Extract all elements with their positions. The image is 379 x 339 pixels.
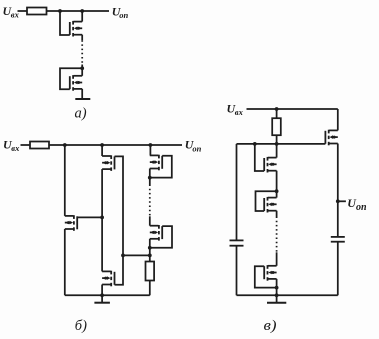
wire bottom rail (fig v) (237, 294, 338, 296)
junction drain tap (80, 9, 84, 13)
junction VT2 drain/gate (80, 66, 84, 70)
transistor VT4 (102, 145, 123, 285)
transistor VT7 (102, 271, 114, 296)
node Uvx label (fig a) (3, 4, 20, 20)
svg-text:в): в) (264, 318, 277, 334)
transistor VT1 (60, 11, 82, 40)
wire Uvx to R1 (18, 10, 28, 12)
resistor R4 (272, 109, 281, 144)
junction VT4 gate wire node (121, 254, 125, 258)
junction bottom rail ground (fig v) (275, 293, 279, 297)
node Uop label (fig b) (185, 138, 202, 154)
resistor R1 (27, 8, 47, 15)
resistor R3 (146, 262, 155, 281)
junction bottom rail ground (100, 293, 104, 297)
transistor VT11 (255, 252, 277, 295)
node Uvx label (fig b) (3, 137, 20, 153)
junction VT10 drain/gate (275, 189, 279, 193)
capacitor C1 (230, 240, 244, 295)
junction rail-VT5 (149, 143, 153, 147)
wire bottom rail (fig b) (65, 294, 150, 296)
ground (fig v) (267, 295, 286, 302)
wire VT6 source to VT4 gate line (123, 254, 150, 256)
wire gate bus (fig v) (237, 143, 326, 145)
junction Uop tap (336, 199, 340, 203)
svg-text:оп: оп (119, 10, 128, 20)
resistor R2 (30, 142, 49, 149)
caption b (75, 318, 87, 334)
transistor VT3 (65, 145, 102, 295)
junction rail-VT4 (100, 143, 104, 147)
junction VT11 gate-source (275, 286, 279, 290)
wire Uop tick (338, 200, 346, 202)
wire top rail (fig b) (49, 144, 182, 146)
junction VT3 gate to VT4 source (100, 216, 104, 220)
node Uop label (fig v) (347, 196, 367, 213)
wire R1 to Uop rail (47, 10, 110, 12)
svg-text:вх: вх (11, 143, 20, 153)
svg-text:оп: оп (192, 143, 201, 153)
wire R3 to bottom rail (149, 281, 151, 296)
capacitor C2 (331, 237, 345, 295)
wire top rail (fig v) (247, 108, 338, 110)
junction VT6 source to cross wire (148, 254, 152, 258)
wire Uvx to R2 (21, 144, 31, 146)
wire dotted chain (fig a) (81, 40, 83, 64)
wire left branch top (236, 144, 238, 241)
svg-text:оп: оп (356, 202, 367, 213)
caption v (264, 318, 277, 334)
junction rail-VT3 (63, 143, 67, 147)
transistor VT8 (325, 109, 337, 237)
caption a (75, 106, 87, 122)
transistor VT9 (255, 144, 277, 191)
svg-text:б): б) (75, 318, 87, 334)
transistor VT5 (150, 145, 172, 185)
transistor VT10 (256, 191, 277, 216)
junction VT5 gate-source (148, 176, 152, 180)
wire dotted chain (fig b) (149, 185, 151, 217)
junction gate tap (58, 9, 62, 13)
svg-text:вх: вх (235, 107, 244, 117)
junction VT6 gate-source (148, 246, 152, 250)
ground (fig b) (94, 295, 110, 302)
node Uop label (fig a) (112, 4, 129, 19)
svg-text:а): а) (75, 106, 87, 122)
ground (fig a) (75, 98, 90, 100)
node Uvx label (fig v) (227, 101, 244, 117)
junction bus-VT9 gate (253, 142, 257, 146)
junction rail-R4 (275, 107, 279, 111)
transistor VT2 (60, 65, 82, 99)
transistor VT6 (150, 216, 172, 261)
junction bus-VT9 drain (275, 142, 279, 146)
wire dotted chain (fig v) (276, 217, 278, 253)
